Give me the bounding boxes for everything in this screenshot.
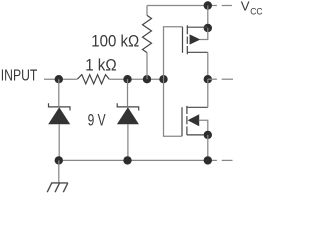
- node: Q2 source/body node: [204, 131, 212, 139]
- ground symbol hatch 2: [55, 183, 60, 192]
- wire: ground rail continuation dash: [222, 159, 233, 161]
- transistor Q2 top stub (drain): [187, 106, 208, 108]
- wire: R2 bottom lead: [146, 53, 148, 80]
- wire: D1 cathode lead: [58, 79, 60, 106]
- ground symbol hatch 1: [47, 183, 52, 192]
- wire: VCC top rail: [147, 5, 217, 7]
- wire: VCC rail continuation dash: [222, 5, 232, 7]
- svg-text:1 kΩ: 1 kΩ: [85, 56, 117, 74]
- wire: INPUT lead: [44, 78, 77, 80]
- wire: ground symbol lead: [58, 160, 60, 183]
- node: zener D1 top junction: [55, 75, 63, 83]
- node: R2 bottom junction: [143, 75, 151, 83]
- svg-text:100 kΩ: 100 kΩ: [91, 31, 139, 50]
- node: ground rail left junction (D1 anode): [55, 156, 63, 164]
- svg-text:INPUT: INPUT: [1, 68, 38, 85]
- svg-text:CC: CC: [250, 7, 263, 17]
- node: VCC rail junction: [204, 1, 212, 9]
- transistor Q1 bottom stub (drain): [187, 51, 208, 53]
- node: ground rail right junction (Q2 source): [204, 156, 212, 164]
- zener diode D1 cathode bar: [49, 103, 71, 110]
- transistor Q2 gate bar: [181, 107, 183, 136]
- resistor R1 1 kΩ (series input resistor): [77, 75, 109, 84]
- transistor Q2 channel segments: [186, 106, 188, 135]
- transistor Q1 body arrow (points right, p-channel): [190, 34, 201, 44]
- svg-text:9 V: 9 V: [88, 111, 106, 129]
- wire: D2 cathode lead: [127, 79, 129, 106]
- transistor Q2 bottom stub (source): [187, 134, 208, 136]
- wire: gate drop to Q2 gate: [164, 79, 183, 136]
- ground symbol hatch 3: [63, 183, 68, 192]
- zener diode D1 anode triangle: [48, 107, 70, 124]
- wire: Q2 body tie to source node: [199, 120, 208, 135]
- wire: VCC to Q1 source/body node: [207, 6, 209, 29]
- wire: R2 top lead from VCC rail: [146, 6, 148, 16]
- resistor R2 100 kΩ (pull-up): [143, 15, 152, 52]
- node: zener D2 top junction: [123, 75, 131, 83]
- transistor Q2 body arrow (points left, n-channel): [188, 114, 200, 126]
- node: Q1 source/body node: [204, 24, 212, 32]
- wire: output stub: [208, 78, 217, 80]
- wire: ground rail: [59, 159, 217, 161]
- wire: Q1 body tie to source node: [200, 28, 208, 40]
- transistor Q1 gate bar: [182, 27, 184, 53]
- wire: Q2 drain up to output node: [207, 79, 209, 107]
- wire: D1 anode lead: [58, 124, 60, 160]
- ground symbol bar: [51, 182, 68, 184]
- wire: D2 anode lead: [127, 124, 129, 160]
- wire: output continuation dash: [222, 78, 233, 80]
- wire: gate riser to Q1 gate: [164, 27, 183, 79]
- wire: input node bus from R1 to gate riser: [109, 78, 163, 80]
- wire: Q2 source down to ground rail: [207, 135, 209, 161]
- transistor Q1 channel segments: [186, 25, 188, 54]
- node: output node: [204, 75, 212, 83]
- node: ground rail middle junction (D2 anode): [123, 156, 131, 164]
- zener diode D2 cathode bar: [117, 103, 139, 110]
- node: gate junction: [159, 75, 167, 83]
- svg-text:V: V: [241, 0, 250, 13]
- transistor Q1 top stub (source): [187, 26, 208, 28]
- zener diode D2 anode triangle: [117, 107, 139, 124]
- wire: Q1 drain down to output node: [207, 52, 209, 79]
